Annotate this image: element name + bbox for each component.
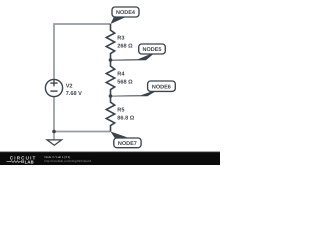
resistor R5 [106, 96, 114, 132]
footer caption text [45, 155, 92, 163]
svg-text:LAB: LAB [25, 159, 34, 164]
resistor R3 [106, 24, 114, 60]
node NODE5 flag [111, 44, 166, 61]
svg-text:R3: R3 [117, 36, 124, 42]
junction node between R4 and R5 [109, 94, 113, 98]
svg-text:268 Ω: 268 Ω [117, 43, 133, 49]
wire top from V2 to R3 top [54, 24, 111, 80]
CircuitLab logo [7, 156, 37, 165]
svg-text:R5: R5 [117, 108, 124, 114]
svg-text:86.8 Ω: 86.8 Ω [117, 115, 134, 121]
R3 value label [117, 36, 133, 50]
R5 value label [117, 108, 134, 122]
footer bar [0, 152, 220, 166]
svg-text:7.68 V: 7.68 V [66, 91, 82, 97]
V2 value label [66, 83, 82, 97]
node NODE4 flag [111, 7, 140, 24]
node NODE6 flag [111, 81, 176, 97]
node NODE7 flag [111, 132, 142, 148]
svg-text:NODE6: NODE6 [152, 85, 171, 91]
ground [53, 132, 55, 140]
junction dot at ground node [52, 130, 56, 134]
svg-text:NODE4: NODE4 [116, 10, 136, 16]
svg-text:R4: R4 [117, 72, 125, 78]
svg-text:V2: V2 [66, 83, 73, 89]
svg-text:http://circuitlab.com/c6kg4hfr: http://circuitlab.com/c6kg4hfr6dweb4 [45, 159, 92, 163]
voltage source V2 [45, 79, 62, 96]
resistor R4 [106, 60, 114, 96]
svg-text:NODE7: NODE7 [118, 141, 137, 147]
svg-text:NODE5: NODE5 [143, 47, 162, 53]
R4 value label [117, 72, 133, 86]
svg-text:568 Ω: 568 Ω [117, 79, 133, 85]
wire bottom from V2 to R5 bottom [54, 97, 111, 132]
junction node between R3 and R4 [109, 58, 113, 62]
